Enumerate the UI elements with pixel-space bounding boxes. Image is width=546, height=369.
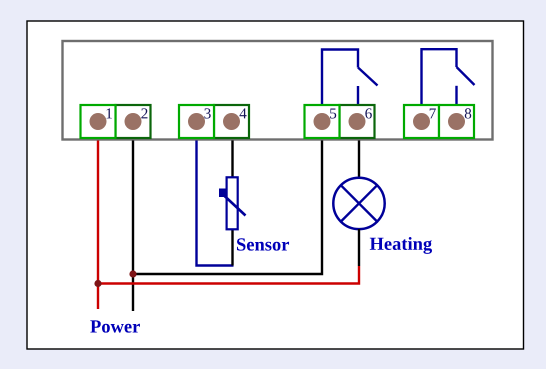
- pin number 8: [465, 108, 471, 118]
- label Sensor: [237, 238, 289, 250]
- wire: lamp bottom to red bus (black stub): [358, 229, 360, 266]
- wire: terminal 4 down through sensor (black): [231, 141, 233, 266]
- pin number 2: [141, 108, 147, 118]
- pin number 1: [107, 108, 112, 118]
- terminal 7: [404, 105, 439, 138]
- wire: red bus from power node to heating lamp: [98, 266, 359, 284]
- lamp E1 heating: [333, 178, 384, 229]
- pin number 6: [365, 108, 372, 118]
- junction: red bus on live wire: [94, 280, 101, 287]
- terminal 6: [340, 105, 375, 138]
- terminal 4: [214, 105, 249, 138]
- pin number 7: [430, 108, 436, 118]
- wire: black bus from node at terminal-2 wire to terminal 5: [133, 141, 322, 275]
- terminal 2: [116, 105, 151, 138]
- label Power: [90, 320, 140, 332]
- wire: terminal 2 to power (black, neutral): [132, 141, 134, 312]
- terminal 3: [179, 105, 214, 138]
- thermistor sensor RT1: [219, 177, 246, 229]
- wire: terminal 1 to power (red, live): [97, 141, 99, 310]
- wire: terminal 6 to lamp (black): [358, 141, 360, 179]
- controller body: [63, 41, 493, 140]
- pin number 5: [330, 108, 336, 118]
- switch S1 contacts 5-6: [322, 50, 378, 111]
- terminal 8: [439, 105, 474, 138]
- label Heating: [370, 237, 432, 254]
- pin number 4: [240, 108, 247, 118]
- terminal 1: [81, 105, 116, 138]
- pin number 3: [204, 108, 210, 118]
- wire: terminal 3 sensor loop (blue): [197, 141, 234, 266]
- junction: black bus on neutral wire: [129, 270, 136, 277]
- switch S2 contacts 7-8: [422, 49, 475, 110]
- terminal 5: [305, 105, 340, 138]
